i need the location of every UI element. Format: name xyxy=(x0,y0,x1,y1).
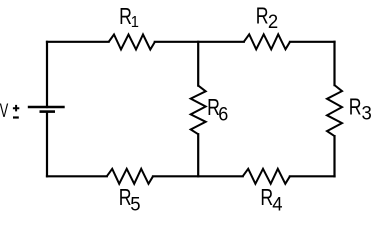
resistor R2 xyxy=(244,34,290,49)
svg-text:2: 2 xyxy=(268,11,278,33)
wire bottom-middle: R4 to R5 through node xyxy=(153,175,243,177)
wire bottom-right: corner to R4 xyxy=(290,175,335,177)
wire left upper: battery + plate to top-left corner xyxy=(46,42,48,107)
wire middle lower: R6 to bottom node xyxy=(197,134,199,176)
battery V (voltage source) xyxy=(28,107,65,112)
wire top-right: R2 to top-right corner xyxy=(290,41,335,43)
wire right upper: corner to R3 xyxy=(333,42,335,85)
svg-text:5: 5 xyxy=(130,194,140,216)
svg-text:R: R xyxy=(349,94,362,120)
wire middle upper: top node to R6 xyxy=(197,42,199,86)
wire bottom-left: R5 to bottom-left corner xyxy=(47,175,107,177)
resistor R3 xyxy=(327,85,342,136)
svg-text:R: R xyxy=(260,185,273,211)
battery long plate (+) xyxy=(28,106,65,109)
wire top-middle: R1 to R2 through node xyxy=(155,41,244,43)
battery plus sign xyxy=(13,105,19,112)
svg-text:3: 3 xyxy=(362,103,372,125)
wire top-left: left corner to R1 xyxy=(47,41,109,43)
wire right lower: R3 to bottom-right corner xyxy=(333,136,335,176)
svg-text:1: 1 xyxy=(131,13,139,30)
resistor R6 xyxy=(191,86,206,135)
svg-text:V: V xyxy=(0,101,8,122)
wire left lower: bottom-left corner to battery - plate xyxy=(46,112,48,176)
battery short plate (-) xyxy=(40,110,56,113)
svg-text:6: 6 xyxy=(218,103,228,125)
resistor R1 xyxy=(109,35,155,50)
resistor R4 xyxy=(243,169,290,184)
svg-text:R: R xyxy=(256,3,269,29)
battery minus sign xyxy=(13,116,19,118)
svg-text:4: 4 xyxy=(272,194,283,216)
resistor R5 xyxy=(107,169,153,184)
